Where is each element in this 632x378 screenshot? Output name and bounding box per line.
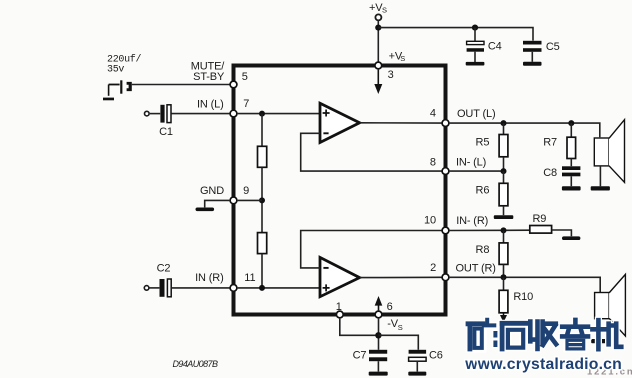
svg-text:2: 2 <box>430 262 436 274</box>
junction R8 tap <box>501 227 507 233</box>
svg-text:R5: R5 <box>476 137 490 149</box>
capacitor C8 <box>543 166 580 186</box>
svg-text:S: S <box>382 5 387 14</box>
capacitor 220uF mute <box>107 53 142 93</box>
svg-text:ST-BY: ST-BY <box>193 71 225 83</box>
ground C5 <box>523 62 542 66</box>
label -Vs <box>387 318 403 332</box>
svg-text:S: S <box>400 54 405 63</box>
svg-text:R10: R10 <box>513 291 533 303</box>
svg-text:9: 9 <box>243 185 249 197</box>
speaker R <box>595 274 626 339</box>
wire terminal to C2 <box>149 287 159 289</box>
wire pin 11 to op-amp + <box>238 287 320 289</box>
svg-text:C4: C4 <box>488 41 502 53</box>
pin 7 IN (L) <box>197 98 249 117</box>
junction R7 tap <box>568 120 574 126</box>
watermark crystalradio logo <box>468 320 621 349</box>
svg-text:4: 4 <box>430 108 436 120</box>
pin 6 <box>375 301 393 318</box>
svg-text:11: 11 <box>244 272 255 284</box>
pin 5 MUTE/ST-BY <box>191 60 248 88</box>
wire C1 to pin 7 <box>172 113 230 115</box>
ground C4 <box>466 62 485 66</box>
junction C4 tap <box>472 25 478 31</box>
wire C2 to pin 11 <box>172 287 230 289</box>
node input R terminal <box>144 286 149 291</box>
ground C6 <box>408 372 426 376</box>
junction +Vs top <box>375 25 381 31</box>
wire U1B output to pin 2 <box>360 276 442 278</box>
svg-text:IN- (L): IN- (L) <box>456 157 486 169</box>
pin 11 IN (R) <box>195 272 255 291</box>
wire C4 drop <box>474 28 476 41</box>
ground R9 <box>562 236 580 240</box>
svg-text:C5: C5 <box>546 41 560 53</box>
svg-text:C6: C6 <box>429 350 443 362</box>
resistor R9 <box>530 213 552 233</box>
wire terminal to C1 <box>150 113 160 115</box>
wire pin 7 to op-amp + <box>238 113 320 115</box>
wire pin 8 net <box>450 170 504 172</box>
ground mute cap <box>103 85 114 101</box>
wire OUT L net <box>450 123 600 137</box>
wire pin 10 net <box>450 229 530 231</box>
svg-text:C2: C2 <box>157 263 171 275</box>
svg-text:10: 10 <box>424 214 436 226</box>
svg-text:C8: C8 <box>543 167 557 179</box>
svg-text:IN (L): IN (L) <box>197 98 224 110</box>
svg-text:OUT (L): OUT (L) <box>457 108 495 120</box>
pin 4 OUT (L) <box>430 108 496 127</box>
wire -Vs to C6 <box>378 335 418 350</box>
resistor R6 <box>476 171 508 215</box>
wire +Vs to C4 C5 <box>378 28 533 41</box>
ground speaker L <box>591 186 610 190</box>
svg-text:3: 3 <box>388 69 394 81</box>
wire R9 to ground <box>552 230 572 236</box>
wire U1B feedback from pin 10 <box>301 231 442 268</box>
capacitor C4 <box>467 41 502 62</box>
svg-text:35v: 35v <box>107 65 124 76</box>
ground C8 <box>562 186 581 190</box>
junction R10 tap <box>501 274 507 280</box>
junction pin 11 column <box>259 285 265 291</box>
junction R6 tap <box>501 168 507 174</box>
svg-text:220uf/: 220uf/ <box>107 53 142 65</box>
svg-text:OUT (R): OUT (R) <box>456 262 496 274</box>
speaker L <box>594 120 624 187</box>
wire mute cap to pin 5 <box>132 84 230 86</box>
svg-text:1: 1 <box>336 301 342 313</box>
resistor R8 <box>476 230 508 277</box>
svg-text:5: 5 <box>242 71 248 83</box>
pin 10 IN- (R) <box>424 214 488 234</box>
wire column middle <box>261 167 263 232</box>
pin 8 IN- (L) <box>430 157 486 175</box>
svg-text:6: 6 <box>387 301 393 313</box>
svg-text:C1: C1 <box>159 126 173 138</box>
pin 9 GND <box>200 185 249 204</box>
node input L terminal <box>145 111 150 116</box>
node +Vs terminal <box>369 2 387 21</box>
arrow R10 to -Vs <box>500 313 507 323</box>
wire pin 1 to -Vs junction <box>340 319 379 336</box>
junction -Vs <box>375 332 381 338</box>
svg-text:8: 8 <box>430 157 436 169</box>
capacitor C1 <box>159 105 173 138</box>
pin 2 OUT (R) <box>430 262 496 280</box>
arrow pin 3 supply into IC <box>374 70 382 94</box>
ground C7 <box>369 372 388 376</box>
svg-text:R8: R8 <box>476 244 490 256</box>
svg-text:S: S <box>398 323 403 332</box>
arrow pin 6 supply <box>375 296 383 310</box>
capacitor C7 <box>353 350 388 372</box>
op-amp U1A <box>320 103 360 142</box>
svg-text:GND: GND <box>200 185 224 197</box>
svg-text:7: 7 <box>243 98 249 110</box>
svg-text:R7: R7 <box>543 137 557 149</box>
resistor internal R-A <box>258 146 267 167</box>
capacitor C2 <box>157 263 172 297</box>
ground R6 <box>494 215 514 219</box>
wire column lower <box>261 254 263 288</box>
svg-text:IN (R): IN (R) <box>195 272 223 284</box>
IC body U1 <box>234 66 446 315</box>
pin 1 <box>336 301 343 318</box>
svg-text:R6: R6 <box>476 185 490 197</box>
resistor internal R-B <box>258 233 267 254</box>
resistor R10 <box>499 277 533 313</box>
resistor R5 <box>476 123 508 171</box>
svg-text:R9: R9 <box>533 213 547 225</box>
wire +Vs vertical to pin 3 <box>377 20 379 63</box>
wire U1A output to pin 4 <box>360 122 442 124</box>
wire column upper <box>261 114 263 147</box>
capacitor C6 <box>409 350 443 372</box>
ground pin 9 <box>196 200 230 211</box>
wire OUT R net <box>450 277 601 292</box>
junction pin 9 column <box>259 197 265 203</box>
svg-text:www.crystalradio.cn: www.crystalradio.cn <box>464 356 622 373</box>
ground speaker R <box>591 339 610 343</box>
wire pin 9 to column <box>238 199 262 201</box>
junction pin 7 column <box>259 111 265 117</box>
op-amp U1B <box>320 257 360 296</box>
wire pin 6 down <box>378 319 380 350</box>
svg-text:IN- (R): IN- (R) <box>456 215 488 227</box>
pin 3 <box>375 51 405 82</box>
resistor R7 <box>543 123 575 166</box>
wire U1A feedback from pin 8 <box>301 133 442 171</box>
capacitor C5 <box>523 41 560 62</box>
svg-text:C7: C7 <box>353 350 367 362</box>
junction R5 tap <box>501 120 507 126</box>
svg-text:D94AU087B: D94AU087B <box>173 359 219 369</box>
